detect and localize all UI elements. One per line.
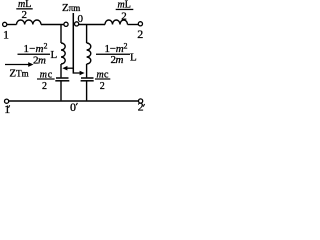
wire xyxy=(86,82,88,101)
wire right shunt branch xyxy=(86,25,88,44)
svg-text:mc: mc xyxy=(97,70,110,81)
svg-text:0: 0 xyxy=(70,100,76,114)
wire xyxy=(128,24,139,26)
svg-text:L: L xyxy=(130,52,137,64)
node circle left of gap xyxy=(64,22,68,26)
svg-text:2: 2 xyxy=(42,81,47,92)
fraction bar mc/2 left xyxy=(37,78,55,79)
svg-text:1: 1 xyxy=(3,28,9,42)
center section boundary line xyxy=(72,13,74,74)
ZTm arrow head xyxy=(28,62,33,67)
left arrow head xyxy=(62,66,67,71)
bottom rail wire xyxy=(9,100,139,102)
terminal 1 xyxy=(3,22,7,26)
svg-text:0: 0 xyxy=(78,13,84,25)
wire xyxy=(60,64,62,77)
svg-text:2: 2 xyxy=(22,9,28,21)
svg-text:mL: mL xyxy=(118,0,131,11)
inductor L2 mL/2 xyxy=(105,20,128,25)
fraction bar (1-m2)/2m left xyxy=(18,54,51,55)
svg-text:L: L xyxy=(51,49,58,61)
inductor left shunt (1-m2)/2m L xyxy=(61,43,65,64)
terminal 0 circle xyxy=(75,22,79,26)
fraction bar mL/2 left xyxy=(16,8,32,9)
wire xyxy=(41,24,64,26)
svg-text:2: 2 xyxy=(121,10,127,22)
terminal 2prime xyxy=(139,99,143,103)
left measuring arrow xyxy=(67,67,75,69)
wire xyxy=(86,64,88,77)
terminal 1prime xyxy=(5,99,9,103)
svg-text:2m: 2m xyxy=(33,55,46,67)
inductor right shunt (1-m2)/2m L xyxy=(87,43,91,64)
inductor L1 mL/2 xyxy=(17,20,42,25)
wire xyxy=(7,24,17,26)
svg-text:2: 2 xyxy=(138,100,144,114)
wire xyxy=(60,82,62,101)
svg-text:ZTm: ZTm xyxy=(9,68,28,80)
fraction bar (1-m2)/2m right xyxy=(96,54,130,55)
svg-text:1: 1 xyxy=(4,102,10,116)
capacitor right mc/2 xyxy=(81,77,94,79)
ZTm arrow xyxy=(5,64,29,66)
wire left shunt branch xyxy=(60,25,62,44)
fraction bar mc/2 right xyxy=(95,78,110,79)
svg-text:2: 2 xyxy=(100,81,105,92)
wire xyxy=(79,24,105,26)
svg-text:2: 2 xyxy=(137,27,143,41)
right measuring arrow xyxy=(73,72,81,74)
svg-text:1−m2: 1−m2 xyxy=(105,41,128,55)
right arrow head xyxy=(80,71,85,76)
svg-text:mc: mc xyxy=(40,70,53,81)
fraction bar mL/2 right xyxy=(116,9,134,10)
svg-text:2m: 2m xyxy=(111,54,124,66)
capacitor left mc/2 xyxy=(56,77,69,79)
terminal 2 xyxy=(138,22,142,26)
svg-text:1−m2: 1−m2 xyxy=(24,41,48,55)
